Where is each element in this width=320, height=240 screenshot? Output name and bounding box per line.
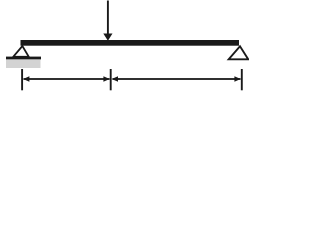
dimension arrowhead left span, right end	[103, 76, 109, 82]
dimension arrowhead right span, right end	[234, 76, 240, 82]
beam	[21, 40, 240, 46]
pinned support triangle (left)	[13, 46, 29, 57]
dimension arrowhead left span, left end	[23, 76, 29, 82]
dimension extension tick (left, at left support)	[21, 69, 23, 90]
dimension line right span	[113, 78, 241, 80]
ground hatch block (gray)	[6, 59, 41, 68]
load arrow (point force) shaft	[107, 1, 109, 35]
dimension arrowhead right span, left end	[112, 76, 118, 82]
roller support triangle (right)	[229, 46, 249, 59]
load arrow head	[103, 34, 112, 41]
dimension line left span	[24, 78, 110, 80]
dimension extension tick (right, at right support)	[241, 69, 243, 90]
ground line (left support)	[6, 57, 41, 60]
dimension extension tick (middle, at load)	[110, 69, 112, 90]
